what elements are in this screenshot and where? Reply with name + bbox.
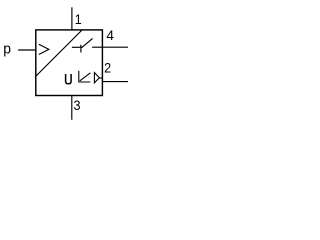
wire pin p [18,49,36,51]
diagonal converter line [36,30,82,76]
analog ramp graph axes [79,71,91,82]
svg-text:1: 1 [75,11,82,27]
wire pin 1 [71,7,73,30]
switch S1 actuator tick [80,45,82,53]
pressure input chevron [39,44,49,54]
PE converter box U1 [36,30,103,96]
svg-text:2: 2 [104,60,111,76]
analog output lead [99,77,102,79]
analog ramp rising line [80,73,91,81]
svg-text:3: 3 [74,97,81,113]
svg-text:p: p [3,41,11,58]
switch S1 right lead [92,46,102,48]
switch S1 blade [82,38,93,47]
svg-text:4: 4 [106,27,114,43]
wire pin 2 [102,81,128,83]
wire pin 3 [71,96,73,120]
wire pin 4 [102,46,128,48]
label U (drawn as narrow path) [66,74,72,84]
switch S1 left lead [72,46,83,48]
analog output triangle [94,73,99,83]
